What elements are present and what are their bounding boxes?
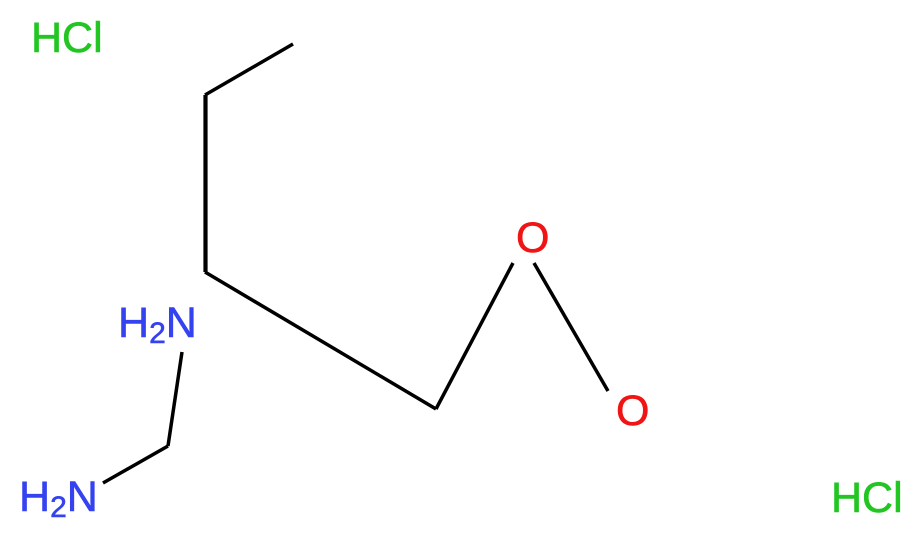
wire: steep ascent into O1: [436, 263, 513, 409]
amine H2N bottom-left: [19, 473, 98, 524]
svg-text:HCl: HCl: [31, 14, 103, 62]
wire: bottom amine bond: [103, 446, 168, 483]
svg-text:H2N: H2N: [118, 299, 197, 350]
ether oxygen O1: [516, 214, 549, 262]
svg-text:H2N: H2N: [19, 473, 98, 524]
wire: vertical bond: [203, 95, 207, 272]
wire: long shallow diagonal chain: [205, 272, 436, 409]
svg-text:O: O: [616, 387, 649, 435]
HCl salt label bottom-right: [831, 474, 903, 522]
HCl salt label top-left: [31, 14, 103, 62]
ether oxygen O2: [616, 387, 649, 435]
wire: bond to middle amine: [168, 352, 182, 446]
svg-text:O: O: [516, 214, 549, 262]
wire: top stub: [205, 44, 293, 95]
svg-text:HCl: HCl: [831, 474, 903, 522]
wire: O1 to O2 straight connector: [534, 263, 608, 391]
amine H2N middle: [118, 299, 197, 350]
